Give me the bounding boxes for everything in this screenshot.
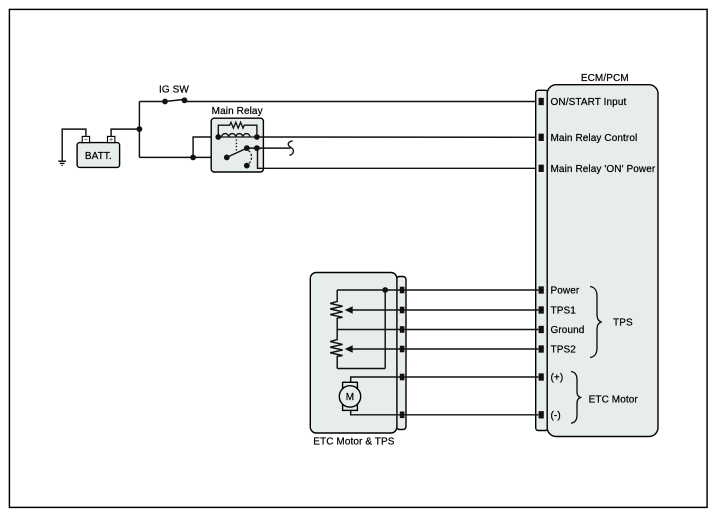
pin ETC Power xyxy=(400,287,405,294)
node B+ junction xyxy=(137,126,143,132)
relay box Main Relay xyxy=(211,106,263,172)
wire B+ vertical riser xyxy=(138,102,140,158)
pin minus xyxy=(539,411,544,418)
ground xyxy=(58,161,66,165)
ECM connector strip xyxy=(536,90,548,430)
pin ETC TPS1 xyxy=(400,307,405,314)
wire TPS2 to ECM xyxy=(404,348,538,350)
pin Power xyxy=(539,286,544,293)
wire relay output stub xyxy=(247,147,291,149)
wire to IG SW xyxy=(139,101,165,103)
wire junction up to relay coil xyxy=(193,137,218,157)
pin ETC minus xyxy=(400,412,405,419)
resistor TPS pot 1 xyxy=(330,290,342,330)
wire Power loop vertical xyxy=(384,290,386,369)
resistor TPS pot 2 xyxy=(330,330,342,369)
svg-text:TPS2: TPS2 xyxy=(551,345,577,356)
wire minus to ECM xyxy=(404,414,538,416)
wire break squiggle xyxy=(288,141,293,155)
svg-text:BATT.: BATT. xyxy=(85,151,112,162)
motor M xyxy=(339,382,360,410)
svg-text:ETC Motor & TPS: ETC Motor & TPS xyxy=(313,437,395,448)
node Power junction xyxy=(382,287,388,293)
svg-text:Main Relay: Main Relay xyxy=(212,106,263,117)
resistor relay suppression xyxy=(218,122,257,137)
wire motor plus inner xyxy=(351,377,404,382)
node relay feed junction xyxy=(190,155,196,161)
wire Ground to ECM xyxy=(404,329,538,331)
pin Ground xyxy=(539,326,544,333)
battery BATT xyxy=(77,143,120,168)
wire TPS1 wiper arrow xyxy=(345,306,404,313)
ETC connector strip xyxy=(397,277,407,430)
svg-text:TPS1: TPS1 xyxy=(551,306,577,317)
svg-text:TPS: TPS xyxy=(613,318,633,329)
inductor relay coil xyxy=(215,134,259,140)
brace ETC Motor group xyxy=(571,372,581,424)
wire B+ to relay switch common xyxy=(139,156,226,158)
pin ON/START Input xyxy=(539,98,544,105)
wire Power to ECM xyxy=(404,289,538,291)
wire Ground inner xyxy=(337,329,404,331)
switch IG SW xyxy=(162,97,187,104)
wire plus to ECM xyxy=(404,376,538,378)
switch relay contact xyxy=(224,145,260,168)
svg-text:M: M xyxy=(346,392,354,403)
brace TPS group xyxy=(590,287,601,358)
ETC box ETC Motor & TPS xyxy=(310,273,397,448)
battery negative terminal xyxy=(82,136,89,142)
wire motor minus inner xyxy=(351,410,404,414)
pin ETC Ground xyxy=(400,326,405,333)
pin ETC TPS2 xyxy=(400,346,405,353)
wire TPS2 wiper arrow xyxy=(345,345,404,352)
pin Main Relay 'ON' Power xyxy=(539,165,544,172)
svg-text:Main Relay 'ON' Power: Main Relay 'ON' Power xyxy=(551,164,656,175)
pin Main Relay Control xyxy=(539,134,544,141)
wire battery positive to node B+ xyxy=(111,129,139,136)
pin TPS2 xyxy=(539,345,544,352)
svg-text:ECM/PCM: ECM/PCM xyxy=(581,73,629,84)
wire IG SW to ECM ON/START pin xyxy=(185,101,539,103)
battery positive terminal xyxy=(108,136,115,142)
wire Power inner xyxy=(337,289,404,291)
svg-text:ETC Motor: ETC Motor xyxy=(589,395,639,406)
pin plus xyxy=(539,373,544,380)
pin TPS1 xyxy=(539,306,544,313)
svg-text:(-): (-) xyxy=(551,411,561,422)
wire TPS1 to ECM xyxy=(404,309,538,311)
svg-text:(+): (+) xyxy=(551,373,564,384)
pin ETC plus xyxy=(400,374,405,381)
wire relay coil to ECM Main Relay Control pin xyxy=(257,136,539,138)
svg-text:IG SW: IG SW xyxy=(159,84,189,95)
wire battery negative to ground xyxy=(62,129,86,161)
svg-text:Ground: Ground xyxy=(551,325,585,336)
svg-text:Main Relay Control: Main Relay Control xyxy=(551,133,638,144)
svg-text:Power: Power xyxy=(551,286,580,297)
wire pot return bottom xyxy=(337,368,385,370)
svg-text:ON/START Input: ON/START Input xyxy=(551,97,627,108)
relay actuation dotted link xyxy=(235,140,237,151)
wire relay output to ECM Main Relay 'ON' Power pin xyxy=(258,148,539,168)
ECM box ECM/PCM xyxy=(547,73,658,437)
